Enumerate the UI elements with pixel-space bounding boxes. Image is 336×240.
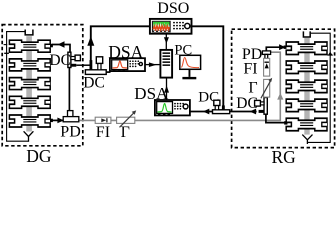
RG label bbox=[272, 147, 297, 167]
attenuator Γ (RG, vertical) bbox=[261, 78, 272, 99]
DG fiber end Y termination bbox=[24, 131, 34, 142]
FI label (RG) bbox=[243, 61, 257, 78]
DC1 label bbox=[49, 52, 71, 69]
instrument DSO (green screen) bbox=[150, 19, 192, 34]
DC4 label bbox=[236, 95, 258, 112]
PD label (RG) bbox=[242, 46, 262, 63]
attenuator Γ (bottom) bbox=[117, 110, 137, 127]
DG grating element 4 bbox=[9, 96, 50, 108]
DC3 label bbox=[198, 89, 219, 105]
wire coupler DC1 to riser bbox=[76, 64, 91, 66]
RG grating element 4 bbox=[286, 99, 327, 112]
coupler DC1 (in DG box) bbox=[68, 52, 81, 67]
DG element1 cup electrode bbox=[25, 30, 33, 35]
wire coupler DC4 down to RG element5 bbox=[266, 114, 288, 122]
svg-text:DG: DG bbox=[26, 146, 52, 166]
svg-text:RG: RG bbox=[272, 147, 297, 167]
DC2 label bbox=[83, 75, 105, 92]
DSA2 label bbox=[134, 84, 169, 103]
instrument DSA2 (green trace) bbox=[155, 100, 190, 115]
svg-text:FI: FI bbox=[96, 124, 110, 141]
svg-text:Γ: Γ bbox=[121, 124, 130, 141]
wire coupler DC3 to RG coupler DC4 with arrow bbox=[230, 109, 257, 115]
instrument DSA1 (red trace) bbox=[110, 58, 145, 71]
main bottom fiber (gray) bbox=[63, 52, 283, 120]
isolator FI (bottom) bbox=[95, 117, 111, 123]
wire coupler DC1 down to PD tap bbox=[68, 68, 70, 112]
DSA1 label bbox=[108, 42, 143, 62]
riser wire from coupler DC2 up to DSO bbox=[91, 26, 150, 70]
DG bus wire (left serpentine) bbox=[4, 32, 29, 142]
RG grating element 1 bbox=[286, 42, 327, 55]
arrowhead up on riser bbox=[87, 36, 94, 46]
DG box dashed border bbox=[2, 25, 83, 146]
DG fiber (gray vertical band) bbox=[26, 36, 32, 131]
RG fiber (gray vertical band) bbox=[304, 38, 309, 135]
RG grating element 3 bbox=[286, 80, 327, 93]
isolator FI (RG, vertical) bbox=[264, 58, 270, 76]
svg-text:FI: FI bbox=[243, 61, 257, 78]
DG grating element 3 bbox=[9, 78, 50, 90]
PD label (left) bbox=[60, 124, 80, 141]
wire DSA1 to PC tower with arrow bbox=[145, 62, 160, 67]
PD tap (RG side, T pedestal) bbox=[262, 51, 270, 59]
wire RG PD to element1 with arrow bbox=[266, 44, 285, 51]
RG element5 input stub bbox=[284, 121, 287, 124]
RG fiber end Y termination bbox=[302, 135, 312, 144]
FI label (bottom) bbox=[96, 124, 110, 141]
wire DSO right to coupler DC3 riser bbox=[192, 26, 224, 106]
RG element1 input stub bbox=[284, 46, 287, 49]
svg-text:DC: DC bbox=[49, 52, 71, 69]
svg-text:PD: PD bbox=[60, 124, 80, 141]
wire DG element1 to coupler DC1 bbox=[52, 45, 71, 53]
DG label bbox=[26, 146, 52, 166]
wire coupler DC2 to DSA1 bbox=[106, 71, 110, 73]
PC tower bbox=[160, 50, 172, 78]
RG bus wire (right serpentine) bbox=[308, 33, 333, 142]
RG element1 cup electrode bbox=[303, 31, 310, 37]
Γ label (RG) bbox=[248, 80, 257, 97]
Γ label (bottom) bbox=[121, 124, 130, 141]
wire DSA2 to coupler DC3 with arrow bbox=[190, 109, 213, 115]
PD tap (DG side, T pedestal) bbox=[63, 111, 79, 122]
PC label bbox=[174, 43, 192, 59]
DG grating element 1 bbox=[9, 40, 50, 52]
DSO label bbox=[157, 0, 189, 17]
svg-text:DC: DC bbox=[83, 75, 105, 92]
svg-text:DSO: DSO bbox=[157, 0, 189, 17]
arrowhead into element1 (left) bbox=[58, 41, 65, 47]
RG grating element 5 bbox=[286, 118, 327, 131]
DG element1 output stub bbox=[50, 44, 53, 47]
DG element5 output stub bbox=[50, 119, 53, 122]
DG grating element 5 bbox=[9, 115, 50, 127]
DG grating element 2 bbox=[9, 59, 50, 71]
RG grating element 2 bbox=[286, 61, 327, 74]
wire PC tower down to DSA2 with arrow bbox=[164, 78, 169, 100]
arrowhead right into fiber bbox=[57, 118, 63, 124]
wire DG element5 output bbox=[52, 119, 64, 121]
PC monitor with trace bbox=[180, 55, 201, 79]
svg-text:Γ: Γ bbox=[248, 80, 257, 97]
RG box dashed border bbox=[232, 29, 335, 147]
coupler DC4 (in RG box) bbox=[255, 98, 268, 115]
coupler DC2 (outside DG box) bbox=[85, 57, 106, 75]
coupler DC3 bbox=[213, 100, 230, 113]
wire DSO down to PC with arrow bbox=[164, 34, 169, 50]
